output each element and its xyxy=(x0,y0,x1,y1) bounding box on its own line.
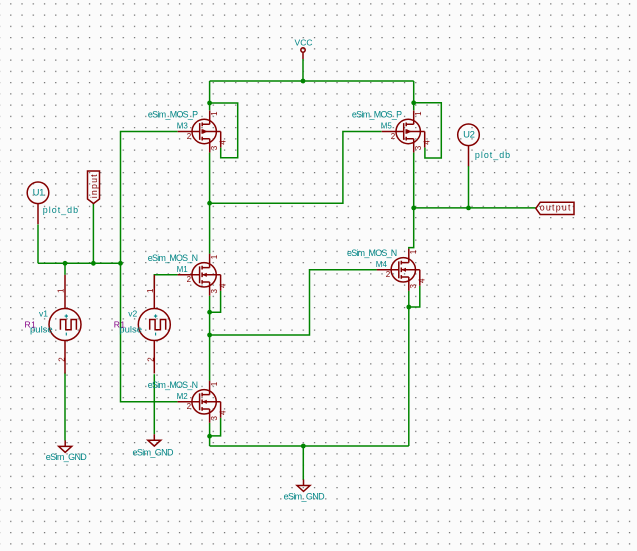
svg-text:3: 3 xyxy=(414,145,423,150)
hierarchical label input xyxy=(88,171,100,204)
svg-text:1: 1 xyxy=(210,254,219,259)
wire node to M5 gate xyxy=(210,132,382,204)
wire output node to M4 drain xyxy=(409,208,414,249)
svg-text:2: 2 xyxy=(391,132,396,141)
svg-text:M2: M2 xyxy=(177,392,189,401)
wire middle ground stub xyxy=(302,446,304,480)
ground symbol eSim_GND xyxy=(297,480,310,492)
wire VCC stub xyxy=(302,59,304,81)
wire M1 gate to V2 plus xyxy=(154,275,177,288)
wire M1 source node to M4 gate xyxy=(210,270,377,335)
svg-text:3: 3 xyxy=(409,284,418,289)
pin leads xyxy=(153,275,155,374)
wire top power bus xyxy=(210,80,414,82)
svg-text:eSim_GND: eSim_GND xyxy=(284,491,326,501)
transistor M5 (eSim_MOS_P) xyxy=(382,111,432,153)
junction mid node junction xyxy=(207,201,212,206)
svg-text:v1: v1 xyxy=(39,309,48,319)
junction ground rail junction xyxy=(301,444,306,449)
junction output node junction xyxy=(411,206,416,211)
hierarchical label output xyxy=(536,202,574,214)
svg-text:M5: M5 xyxy=(381,122,393,131)
svg-text:2: 2 xyxy=(57,357,66,362)
transistor M4 (eSim_MOS_N) xyxy=(377,249,427,291)
wire M1 source xyxy=(209,296,211,335)
svg-text:2: 2 xyxy=(187,402,192,411)
svg-text:eSim_MOS_N: eSim_MOS_N xyxy=(148,253,198,263)
wire M1 to M2 drain xyxy=(209,335,211,381)
svg-text:1: 1 xyxy=(210,381,219,386)
svg-text:M4: M4 xyxy=(376,260,388,269)
svg-text:eSim_MOS_N: eSim_MOS_N xyxy=(148,380,198,390)
plus mark xyxy=(65,314,68,317)
ground symbol eSim_GND xyxy=(59,440,72,452)
svg-text:1: 1 xyxy=(210,111,219,116)
power symbol VCC xyxy=(295,37,313,59)
pulse waveform glyph xyxy=(150,320,166,330)
body circle xyxy=(192,390,216,414)
svg-text:2: 2 xyxy=(187,132,192,141)
svg-text:4: 4 xyxy=(418,278,427,283)
wire V1 minus to ground xyxy=(64,373,66,441)
wire M3 source to M1 drain xyxy=(209,153,211,254)
svg-text:2: 2 xyxy=(386,270,391,279)
svg-text:eSim_MOS_P: eSim_MOS_P xyxy=(148,110,198,120)
wire U1 stub xyxy=(37,224,39,263)
wire M3 drain xyxy=(209,81,211,110)
plot component U2 (plot_db) xyxy=(458,124,480,166)
svg-text:2: 2 xyxy=(147,357,156,362)
wire output wire xyxy=(414,207,536,209)
junction input net junction xyxy=(118,261,123,266)
pulse waveform glyph xyxy=(60,320,76,330)
pin leads xyxy=(64,275,66,374)
wire V1 plus xyxy=(64,263,66,275)
svg-text:4: 4 xyxy=(219,140,228,145)
svg-text:input: input xyxy=(89,174,99,198)
wire M2 bulk loop xyxy=(210,418,221,436)
wire M2 source xyxy=(209,423,211,446)
svg-text:2: 2 xyxy=(187,275,192,284)
svg-text:plot_db: plot_db xyxy=(43,205,78,215)
svg-text:VCC: VCC xyxy=(295,37,313,47)
wire M3 bulk loop xyxy=(210,103,238,158)
svg-text:1: 1 xyxy=(414,111,423,116)
body circle xyxy=(391,258,415,282)
svg-text:pulse: pulse xyxy=(30,325,53,336)
voltage source v1 (pulse) xyxy=(49,275,81,374)
svg-text:3: 3 xyxy=(210,416,219,421)
transistor M3 (eSim_MOS_P) xyxy=(178,111,228,153)
junction U2 junction xyxy=(466,206,471,211)
body circle xyxy=(396,119,420,143)
svg-text:pulse: pulse xyxy=(119,325,142,336)
svg-text:M3: M3 xyxy=(177,122,189,131)
junction M4 source-bulk junction xyxy=(406,305,411,310)
junction M3 drain junction xyxy=(207,101,212,106)
svg-text:4: 4 xyxy=(423,140,432,145)
wire bottom rail xyxy=(210,445,409,447)
svg-text:4: 4 xyxy=(219,283,228,288)
svg-text:U1: U1 xyxy=(33,188,44,199)
svg-text:U2: U2 xyxy=(463,130,474,141)
wire input bus xyxy=(38,262,121,264)
svg-text:eSim_MOS_N: eSim_MOS_N xyxy=(347,248,397,258)
svg-text:M1: M1 xyxy=(177,265,189,274)
junction M1-M4gate junction xyxy=(207,333,212,338)
svg-text:output: output xyxy=(540,203,571,213)
plus mark xyxy=(154,314,157,317)
source body circle xyxy=(138,309,170,341)
wire V2 minus to ground xyxy=(153,374,155,434)
transistor M1 (eSim_MOS_N) xyxy=(178,254,228,296)
junction VCC junction xyxy=(301,79,306,84)
junction M5 drain junction xyxy=(411,100,416,105)
svg-text:4: 4 xyxy=(219,410,228,415)
junction M1 source-bulk junction xyxy=(207,310,212,315)
voltage source v2 (pulse) xyxy=(138,275,170,374)
svg-text:1: 1 xyxy=(146,288,155,293)
wire M4 source xyxy=(408,291,410,446)
wire M4 bulk loop xyxy=(409,286,420,307)
svg-text:3: 3 xyxy=(210,289,219,294)
svg-text:plot_db: plot_db xyxy=(475,150,510,160)
wire U2 stub xyxy=(468,166,470,208)
wire M1 bulk loop xyxy=(210,291,221,312)
plot component U1 (plot_db) xyxy=(27,182,49,224)
ground symbol eSim_GND xyxy=(148,434,161,446)
svg-text:1: 1 xyxy=(57,288,66,293)
svg-text:3: 3 xyxy=(210,145,219,150)
svg-text:eSim_GND: eSim_GND xyxy=(46,452,88,462)
wire M5 source to output node xyxy=(413,153,415,208)
body circle xyxy=(192,119,216,143)
transistor M2 (eSim_MOS_N) xyxy=(178,381,228,423)
wire M5 bulk loop xyxy=(414,103,442,158)
wire input net M3 gate to M2 gate xyxy=(121,132,178,402)
junction M2 source-bulk junction xyxy=(207,434,212,439)
body circle xyxy=(192,263,216,287)
svg-text:eSim_MOS_P: eSim_MOS_P xyxy=(352,110,402,120)
junction V1 input junction xyxy=(63,261,68,266)
minus mark xyxy=(155,333,157,336)
wire M5 drain xyxy=(413,81,415,110)
wire input label stub xyxy=(92,203,94,263)
source body circle xyxy=(49,309,81,341)
svg-text:1: 1 xyxy=(409,249,418,254)
junction input label junction xyxy=(91,261,96,266)
svg-text:eSim_GND: eSim_GND xyxy=(133,447,175,457)
svg-text:v2: v2 xyxy=(128,309,137,319)
minus mark xyxy=(65,333,67,336)
